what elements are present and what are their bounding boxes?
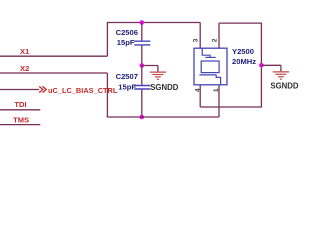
wire TMS stub xyxy=(0,124,40,126)
wire bottom right horizontal xyxy=(200,106,262,108)
svg-text:C2506: C2506 xyxy=(116,28,138,37)
wire top right horizontal xyxy=(219,22,261,24)
svg-text:X2: X2 xyxy=(20,64,29,73)
junction node X2/C2507 xyxy=(140,115,145,120)
svg-text:2: 2 xyxy=(211,38,218,42)
svg-text:20MHz: 20MHz xyxy=(232,57,256,66)
port arrow uC_LC_BIAS_CTRL xyxy=(39,86,46,92)
ground SGNDD left xyxy=(150,72,166,79)
wire X1 horizontal xyxy=(0,55,107,57)
svg-text:15pF: 15pF xyxy=(118,83,136,92)
wire crystal pin 4 drop xyxy=(199,85,201,107)
svg-text:SGNDD: SGNDD xyxy=(150,83,179,92)
wire crystal pin 2 riser xyxy=(218,23,220,48)
junction node X1/C2506 xyxy=(140,20,145,25)
wire branch to left ground xyxy=(142,65,158,67)
svg-text:15pF: 15pF xyxy=(117,38,135,47)
wire top horizontal to crystal pin 3 xyxy=(107,22,200,24)
wire uC_LC_BIAS_CTRL stub xyxy=(0,89,39,91)
crystal Y2500 xyxy=(194,48,227,85)
wire right vertical to ground node xyxy=(260,23,262,108)
wire TDI stub xyxy=(0,109,40,111)
wire X1 vertical riser xyxy=(106,22,108,56)
capacitor C2507 xyxy=(134,86,150,90)
svg-text:3: 3 xyxy=(193,38,200,42)
wire X2 vertical drop xyxy=(106,73,108,117)
ground SGNDD right xyxy=(273,72,289,79)
svg-text:1: 1 xyxy=(213,88,220,92)
capacitor C2506 xyxy=(134,41,150,45)
svg-text:Y2500: Y2500 xyxy=(232,47,254,56)
svg-text:C2507: C2507 xyxy=(116,72,138,81)
wire C2506 top lead xyxy=(141,23,143,41)
svg-text:TDI: TDI xyxy=(14,100,26,109)
wire X2 horizontal xyxy=(0,72,107,74)
wire left ground stem xyxy=(157,66,159,72)
svg-text:TMS: TMS xyxy=(13,115,29,124)
wire branch to right ground xyxy=(261,64,281,66)
wire C2507 top lead xyxy=(141,66,143,86)
wire C2507 bottom lead xyxy=(141,90,143,117)
svg-text:SGNDD: SGNDD xyxy=(270,81,299,90)
svg-text:4: 4 xyxy=(195,88,202,92)
junction node pin2/pin4/SGNDD xyxy=(259,63,264,68)
wire right ground stem xyxy=(280,65,282,71)
svg-text:X1: X1 xyxy=(20,47,30,56)
junction node C2506/C2507/SGNDD xyxy=(140,63,145,68)
wire C2506 bottom lead to ground node xyxy=(141,45,143,65)
wire crystal pin 3 drop xyxy=(199,23,201,49)
svg-text:uC_LC_BIAS_CTRL: uC_LC_BIAS_CTRL xyxy=(48,86,118,95)
wire crystal pin 1 riser xyxy=(218,85,220,117)
wire bottom horizontal to crystal pin 1 xyxy=(107,116,219,118)
